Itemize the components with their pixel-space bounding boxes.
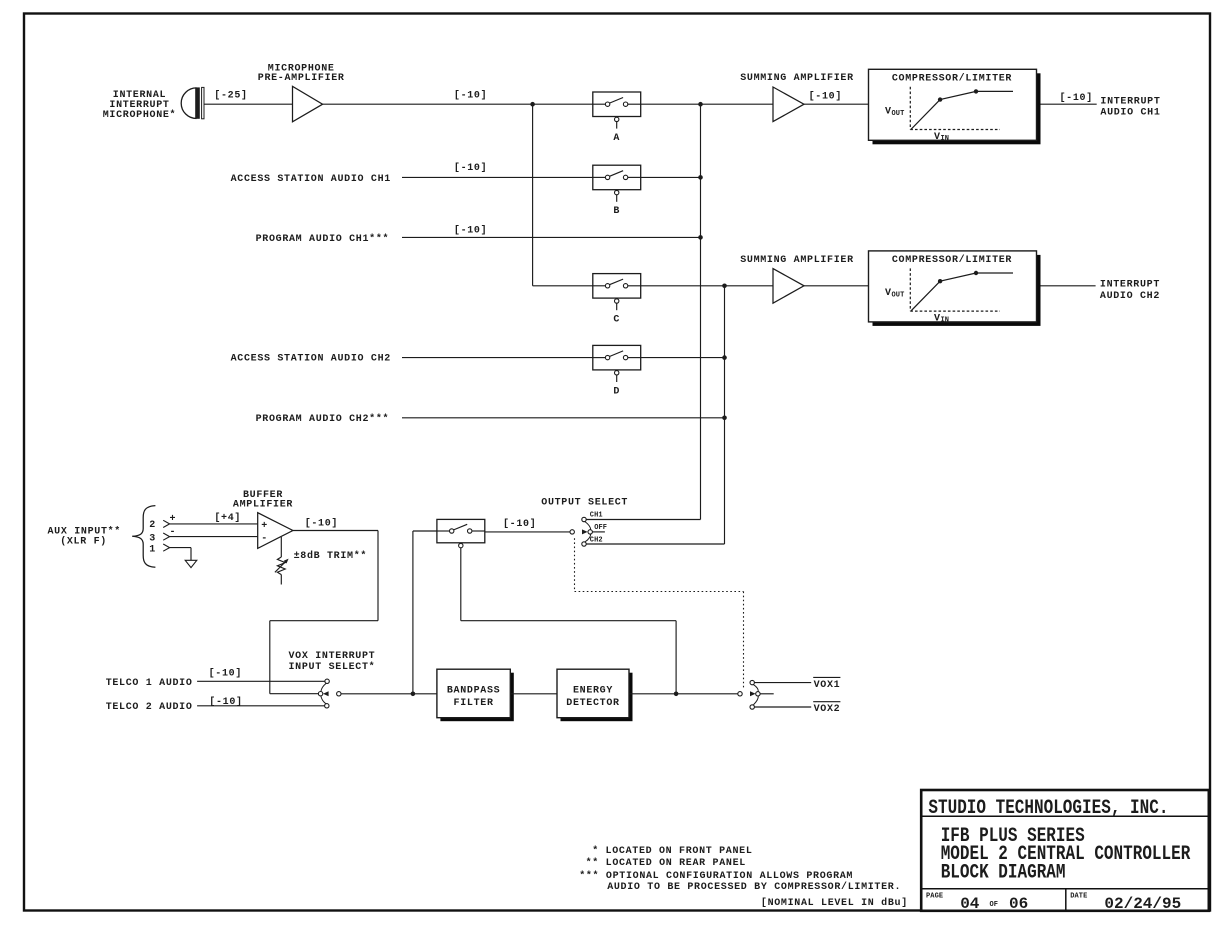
pin 2 connector <box>163 520 169 527</box>
svg-text:INTERRUPT: INTERRUPT <box>1100 97 1160 108</box>
svg-text:04: 04 <box>960 895 980 913</box>
svg-text:SUMMING AMPLIFIER: SUMMING AMPLIFIER <box>740 73 854 84</box>
wire pin 3 to buffer - <box>170 536 258 538</box>
op-amp summing amplifier 2 <box>773 269 804 304</box>
pin 1 connector <box>163 544 169 551</box>
wire bandpass to energy detector <box>510 693 557 695</box>
svg-text:AUDIO CH2: AUDIO CH2 <box>1100 291 1160 302</box>
svg-text:SUMMING AMPLIFIER: SUMMING AMPLIFIER <box>740 255 854 266</box>
wire summing amp 2 to compressor 2 <box>804 285 869 287</box>
wire switch A to summing amplifier 1 <box>641 103 773 105</box>
block compressor/limiter 2 <box>869 251 1041 326</box>
svg-text:OUTPUT SELECT: OUTPUT SELECT <box>541 498 628 509</box>
ground symbol <box>185 560 197 567</box>
svg-text:A: A <box>613 133 620 144</box>
svg-text:INPUT SELECT*: INPUT SELECT* <box>289 661 376 673</box>
potentiometer trim wire <box>280 537 282 557</box>
node VOX2 label <box>813 702 840 716</box>
wire CH2 throw to bus CH2 <box>586 543 724 545</box>
potentiometer 8dB trim <box>275 557 289 585</box>
title line MODEL 2 CENTRAL CONTROLLER <box>941 844 1191 866</box>
wire telco 2 to select <box>197 705 325 707</box>
svg-text:OUT: OUT <box>892 110 905 118</box>
title line IFB PLUS SERIES <box>941 825 1085 847</box>
title line BLOCK DIAGRAM <box>941 862 1066 884</box>
svg-text:[-10]: [-10] <box>503 518 536 530</box>
wire vox1 output <box>754 682 811 684</box>
wire access ch2 to switch D <box>402 357 593 359</box>
svg-text:PRE-AMPLIFIER: PRE-AMPLIFIER <box>258 73 345 84</box>
svg-text:ACCESS STATION AUDIO CH2: ACCESS STATION AUDIO CH2 <box>231 353 391 364</box>
node junction output feed <box>411 692 416 697</box>
linkage dotted output select to vox relay <box>575 538 744 690</box>
wire box to output select pole <box>485 531 570 533</box>
svg-text:** LOCATED ON REAR PANEL: ** LOCATED ON REAR PANEL <box>586 857 746 869</box>
brace XLR pins <box>132 506 155 568</box>
wire bus CH2 vertical <box>724 286 726 544</box>
svg-text:[-25]: [-25] <box>214 90 247 102</box>
node INTERRUPT AUDIO CH1 label <box>1100 97 1160 119</box>
wire box input from vox junction <box>413 531 437 694</box>
svg-text:VOX1: VOX1 <box>814 680 841 691</box>
label VOX INTERRUPT INPUT SELECT <box>289 651 376 673</box>
svg-text:VOX INTERRUPT: VOX INTERRUPT <box>289 651 376 662</box>
svg-text:[-10]: [-10] <box>209 668 242 680</box>
node junction row1 bus CH1 <box>698 102 703 107</box>
svg-text:AUDIO CH1: AUDIO CH1 <box>1100 108 1160 119</box>
node AUX INPUT label <box>48 526 122 548</box>
svg-text:[-10]: [-10] <box>454 162 487 174</box>
svg-text:COMPRESSOR/LIMITER: COMPRESSOR/LIMITER <box>892 254 1012 266</box>
svg-text:[+4]: [+4] <box>214 512 241 524</box>
title company name <box>928 797 1168 819</box>
svg-text:DETECTOR: DETECTOR <box>566 698 619 709</box>
node junction vox feedback <box>674 692 679 697</box>
wire compressor 1 output <box>1041 103 1097 105</box>
switch B <box>593 165 641 202</box>
svg-text:06: 06 <box>1009 895 1028 913</box>
svg-text:OUT: OUT <box>892 292 905 300</box>
svg-text:D: D <box>613 386 620 397</box>
wire telco 1 to select <box>197 680 325 682</box>
switch A <box>593 92 641 129</box>
svg-text:BLOCK DIAGRAM: BLOCK DIAGRAM <box>941 862 1066 884</box>
op-amp microphone pre-amplifier <box>293 86 323 122</box>
wire access ch1 to switch B <box>402 176 593 178</box>
svg-text:BANDPASS: BANDPASS <box>447 686 500 697</box>
svg-text:IN: IN <box>941 317 950 325</box>
svg-text:ENERGY: ENERGY <box>573 686 613 697</box>
svg-text:OF: OF <box>990 901 999 909</box>
svg-text:MICROPHONE*: MICROPHONE* <box>103 109 177 121</box>
svg-text:ACCESS STATION AUDIO CH1: ACCESS STATION AUDIO CH1 <box>231 174 391 185</box>
switch output select <box>570 517 605 546</box>
svg-text:+: + <box>170 514 177 525</box>
svg-text:3: 3 <box>149 534 156 545</box>
svg-text:[-10]: [-10] <box>454 89 487 101</box>
wire program ch1 to bus CH1 <box>402 236 701 238</box>
svg-text:[-10]: [-10] <box>1059 92 1092 104</box>
node junction program ch1 <box>698 235 703 240</box>
svg-text:-: - <box>261 534 268 545</box>
svg-text:02/24/95: 02/24/95 <box>1104 895 1181 913</box>
node junction row1 to switch C feed <box>530 102 535 107</box>
wire summing amp 1 to compressor 1 <box>804 103 869 105</box>
svg-text:[-10]: [-10] <box>305 518 338 530</box>
svg-text:C: C <box>613 315 620 326</box>
svg-text:[-10]: [-10] <box>454 225 487 237</box>
svg-text:+: + <box>261 521 268 532</box>
svg-text:CH1: CH1 <box>590 512 603 520</box>
svg-text:1: 1 <box>149 545 156 556</box>
svg-text:INTERRUPT: INTERRUPT <box>1100 279 1160 290</box>
block energy detector <box>557 669 633 721</box>
wire vox select pole to bandpass filter <box>341 693 437 695</box>
label MICROPHONE PRE-AMPLIFIER <box>258 64 345 85</box>
svg-text:2: 2 <box>149 520 156 531</box>
op-amp buffer amplifier <box>258 513 293 549</box>
switch vox interrupt input select <box>318 679 341 708</box>
svg-text:PROGRAM AUDIO CH1***: PROGRAM AUDIO CH1*** <box>256 233 390 245</box>
svg-text:PROGRAM AUDIO CH2***: PROGRAM AUDIO CH2*** <box>256 413 390 425</box>
svg-text:±8dB TRIM**: ±8dB TRIM** <box>294 550 368 562</box>
svg-text:* LOCATED ON FRONT PANEL: * LOCATED ON FRONT PANEL <box>592 845 752 857</box>
svg-text:PAGE: PAGE <box>926 892 943 900</box>
switch output feed box <box>437 519 485 547</box>
switch D <box>593 345 641 382</box>
svg-text:AMPLIFIER: AMPLIFIER <box>233 500 293 511</box>
wire CH1 throw to bus CH1 <box>586 519 700 521</box>
svg-text:(XLR F): (XLR F) <box>60 535 107 547</box>
title block frame <box>921 790 1209 911</box>
wire box actuator to energy detector output <box>461 548 676 694</box>
node INTERNAL INTERRUPT MICROPHONE label <box>103 90 177 121</box>
node INTERRUPT AUDIO CH2 label <box>1100 279 1160 302</box>
node VOX1 label <box>813 677 840 691</box>
wire switch D to bus CH2 <box>641 357 725 359</box>
title page number <box>960 895 1028 913</box>
wire bus CH1 vertical <box>700 104 702 519</box>
pin 3 connector <box>163 533 169 540</box>
svg-text:FILTER: FILTER <box>454 698 494 709</box>
microphone MIC1 symbol <box>181 87 204 118</box>
node junction switch B output <box>698 175 703 180</box>
svg-text:STUDIO TECHNOLOGIES, INC.: STUDIO TECHNOLOGIES, INC. <box>928 797 1168 819</box>
switch vox output relay <box>738 680 774 709</box>
svg-text:DATE: DATE <box>1070 892 1087 900</box>
svg-text:[NOMINAL LEVEL IN dBu]: [NOMINAL LEVEL IN dBu] <box>761 897 908 909</box>
wire buffer output to vox select <box>270 531 378 694</box>
wire switch C to summing amplifier 2 <box>641 285 773 287</box>
wire switch B to bus CH1 <box>641 176 701 178</box>
svg-text:B: B <box>613 206 620 217</box>
node junction switch D output <box>722 355 727 360</box>
wire compressor 2 output <box>1041 285 1096 287</box>
svg-text:TELCO 2 AUDIO: TELCO 2 AUDIO <box>106 702 193 713</box>
svg-text:CH2: CH2 <box>590 536 603 544</box>
wire pin 1 to ground <box>170 548 191 561</box>
wire pin 2 to buffer + <box>170 523 258 525</box>
svg-text:[-10]: [-10] <box>809 91 842 103</box>
node junction program ch2 <box>722 416 727 421</box>
block compressor/limiter 1 <box>869 69 1041 144</box>
svg-text:TELCO 1 AUDIO: TELCO 1 AUDIO <box>106 678 193 689</box>
svg-text:VOX2: VOX2 <box>814 704 841 715</box>
block bandpass filter <box>437 669 514 721</box>
svg-text:*** OPTIONAL CONFIGURATION ALL: *** OPTIONAL CONFIGURATION ALLOWS PROGRA… <box>579 870 853 882</box>
svg-text:OFF: OFF <box>594 524 607 532</box>
label BUFFER AMPLIFIER <box>233 490 293 511</box>
wire program ch2 to bus CH2 <box>402 417 725 419</box>
wire energy detector to vox relay <box>629 693 738 695</box>
svg-text:COMPRESSOR/LIMITER: COMPRESSOR/LIMITER <box>892 73 1012 85</box>
switch C <box>593 274 641 311</box>
node junction bus CH2 top <box>722 284 727 289</box>
wire vox2 output <box>754 706 811 708</box>
svg-text:AUDIO TO BE PROCESSED BY COMPR: AUDIO TO BE PROCESSED BY COMPRESSOR/LIMI… <box>607 881 901 893</box>
wire preamp to switch A <box>323 103 593 105</box>
wire row1 junction down to switch C <box>533 104 593 286</box>
svg-text:IN: IN <box>941 135 950 143</box>
op-amp summing amplifier 1 <box>773 87 804 122</box>
wire MIC1 to preamp <box>205 103 293 105</box>
